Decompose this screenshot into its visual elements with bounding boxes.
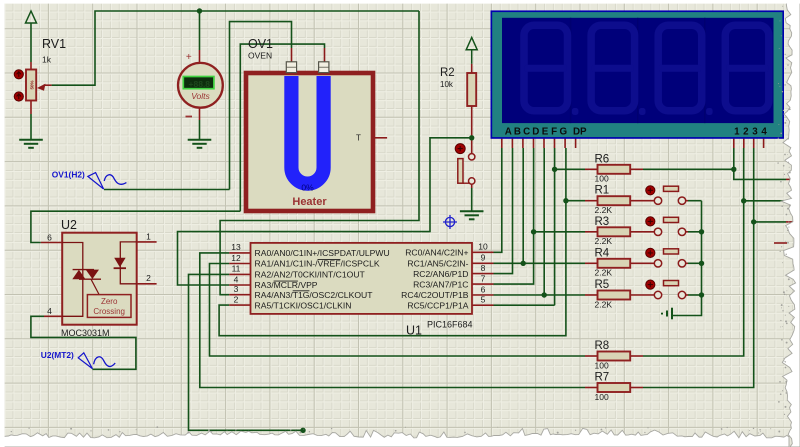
svg-text:MOC3031M: MOC3031M	[61, 328, 110, 338]
svg-text:100: 100	[595, 174, 609, 184]
svg-text:U2: U2	[61, 218, 77, 232]
svg-text:R6: R6	[595, 153, 610, 165]
svg-text:Volts: Volts	[191, 91, 210, 101]
svg-text:2: 2	[743, 127, 749, 138]
svg-text:OV1(H2): OV1(H2)	[52, 170, 85, 180]
svg-text:T: T	[356, 134, 361, 143]
svg-text:2: 2	[234, 294, 239, 304]
svg-text:1: 1	[734, 127, 740, 138]
svg-text:4: 4	[234, 274, 239, 284]
svg-text:8: 8	[481, 263, 486, 273]
svg-text:12: 12	[231, 253, 241, 263]
svg-text:PIC16F684: PIC16F684	[427, 320, 473, 330]
svg-text:R2: R2	[440, 67, 455, 79]
svg-text:R4: R4	[595, 247, 610, 259]
svg-text:RC3/AN7/P1C: RC3/AN7/P1C	[413, 279, 468, 289]
svg-text:100: 100	[595, 360, 609, 370]
svg-text:DP: DP	[573, 127, 587, 138]
svg-text:Zero: Zero	[101, 297, 118, 306]
svg-text:4: 4	[761, 127, 767, 138]
svg-text:R8: R8	[595, 340, 610, 352]
svg-text:A: A	[505, 127, 512, 138]
svg-text:50%: 50%	[29, 80, 34, 89]
svg-text:+: +	[186, 52, 192, 63]
svg-text:R3: R3	[595, 216, 610, 228]
svg-text:D: D	[532, 127, 539, 138]
svg-text:R5: R5	[595, 279, 610, 291]
svg-text:F: F	[551, 127, 557, 138]
svg-text:13: 13	[231, 242, 241, 252]
svg-text:U2(MT2): U2(MT2)	[41, 350, 74, 360]
svg-text:7: 7	[481, 273, 486, 283]
svg-text:RC5/CCP1/P1A: RC5/CCP1/P1A	[407, 300, 468, 310]
svg-text:RA5/T1CKI/OSC1/CLKIN: RA5/T1CKI/OSC1/CLKIN	[255, 300, 352, 310]
svg-text:2.2K: 2.2K	[595, 205, 613, 215]
svg-text:9: 9	[481, 253, 486, 263]
svg-text:100: 100	[595, 392, 609, 402]
svg-text:R7: R7	[595, 372, 610, 384]
svg-text:10: 10	[478, 242, 488, 252]
svg-text:RC1/AN5/C2IN-: RC1/AN5/C2IN-	[407, 259, 468, 269]
svg-text:RA4/AN3/T1G/OSC2/CLKOUT: RA4/AN3/T1G/OSC2/CLKOUT	[255, 290, 374, 300]
svg-text:10k: 10k	[440, 80, 454, 89]
svg-text:RC4/C2OUT/P1B: RC4/C2OUT/P1B	[401, 290, 469, 300]
svg-text:RA2/AN2/T0CKI/INT/C1OUT: RA2/AN2/T0CKI/INT/C1OUT	[255, 270, 366, 280]
svg-text:OV1: OV1	[248, 37, 273, 51]
svg-text:Heater: Heater	[292, 196, 327, 208]
svg-text:U1: U1	[406, 324, 422, 338]
svg-text:6: 6	[47, 233, 52, 243]
svg-text:C: C	[523, 127, 530, 138]
svg-text:OVEN: OVEN	[248, 51, 272, 61]
svg-text:1: 1	[146, 232, 151, 242]
svg-text:0%: 0%	[301, 183, 314, 193]
svg-text:4: 4	[47, 306, 52, 316]
svg-text:1k: 1k	[42, 55, 52, 65]
svg-text:3: 3	[752, 127, 758, 138]
svg-text:5: 5	[481, 295, 486, 305]
svg-text:RC2/AN6/P1D: RC2/AN6/P1D	[413, 269, 468, 279]
svg-text:+88.8: +88.8	[189, 79, 211, 89]
svg-text:B: B	[514, 127, 521, 138]
svg-text:3: 3	[234, 284, 239, 294]
svg-text:RA0/AN0/C1IN+/ICSPDAT/ULPWU: RA0/AN0/C1IN+/ICSPDAT/ULPWU	[255, 248, 390, 258]
svg-text:11: 11	[232, 264, 241, 274]
svg-text:2.2K: 2.2K	[595, 268, 613, 278]
svg-text:G: G	[560, 127, 568, 138]
svg-text:RA3/MCLR/VPP: RA3/MCLR/VPP	[255, 280, 318, 290]
svg-text:Crossing: Crossing	[93, 307, 125, 316]
svg-text:6: 6	[481, 284, 486, 294]
svg-text:RC0/AN4/C2IN+: RC0/AN4/C2IN+	[405, 248, 468, 258]
svg-text:R1: R1	[595, 185, 610, 197]
svg-text:E: E	[542, 127, 549, 138]
svg-text:RV1: RV1	[42, 37, 66, 51]
svg-text:RA1/AN1/C1IN-/VREF/ICSPCLK: RA1/AN1/C1IN-/VREF/ICSPCLK	[255, 259, 380, 269]
svg-text:2.2K: 2.2K	[595, 236, 613, 246]
svg-text:2: 2	[146, 273, 151, 283]
svg-text:2.2K: 2.2K	[595, 299, 613, 309]
